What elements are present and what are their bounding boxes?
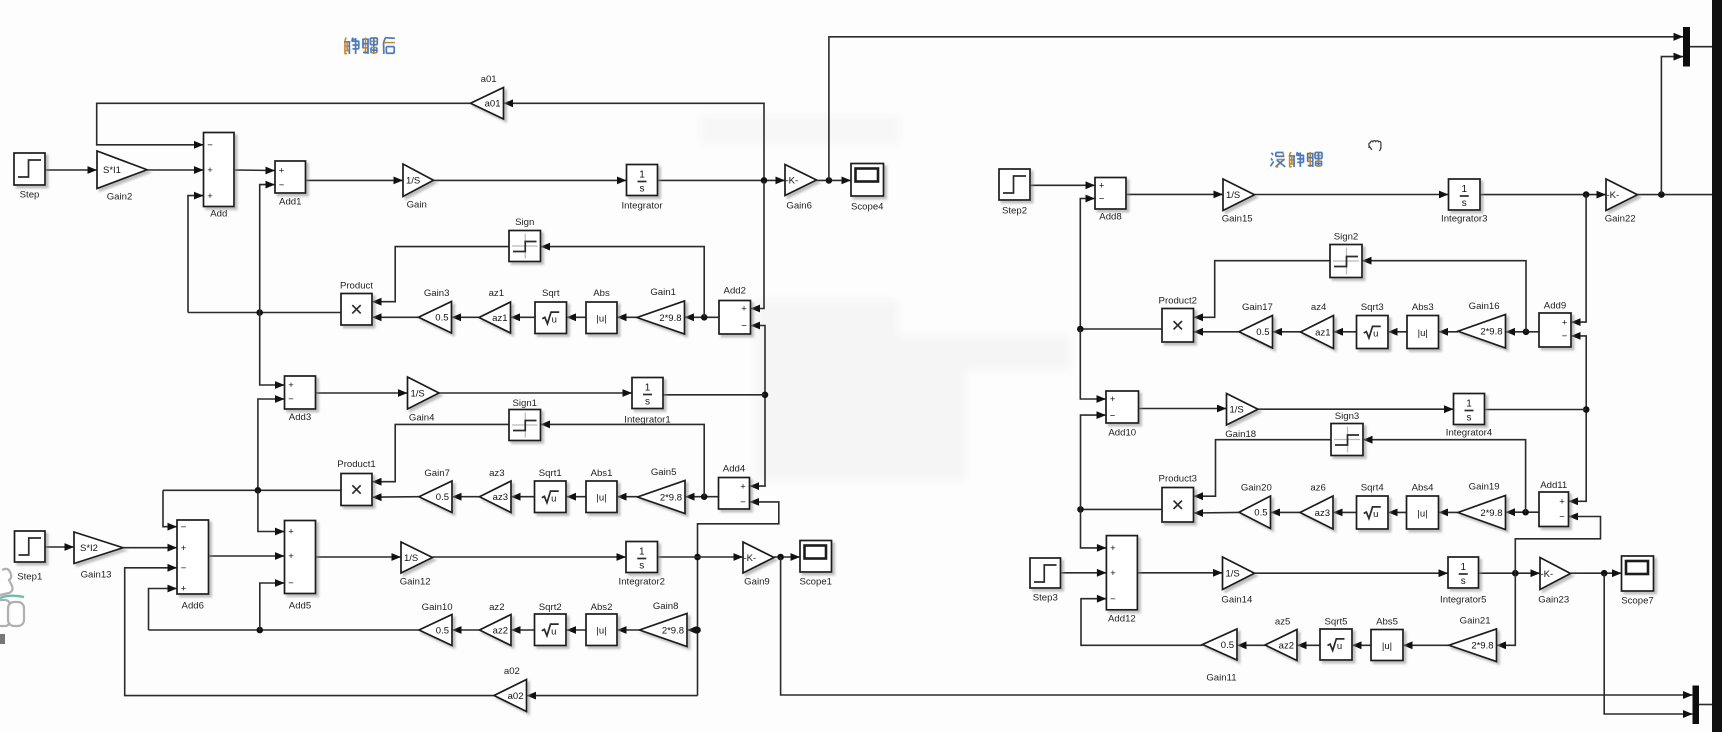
gain block Gain22 value -K- bbox=[1605, 179, 1638, 225]
svg-text:a01: a01 bbox=[485, 99, 501, 110]
svg-text:Gain14: Gain14 bbox=[1221, 595, 1253, 606]
svg-text:+: + bbox=[1110, 568, 1116, 579]
mux block top Mux bbox=[1674, 27, 1691, 67]
sum block Add2 mirrored bbox=[719, 286, 751, 335]
svg-text:Add6: Add6 bbox=[182, 601, 204, 612]
svg-text:Add3: Add3 bbox=[289, 412, 311, 423]
gain block Gain13 value S*I2 bbox=[74, 532, 123, 581]
svg-text:Gain4: Gain4 bbox=[409, 413, 435, 424]
svg-text:2*9.8: 2*9.8 bbox=[1480, 327, 1502, 338]
wire Abs1 to Sqrt1 bbox=[567, 493, 587, 501]
gain block az5 bbox=[1265, 617, 1297, 661]
svg-text:Gain5: Gain5 bbox=[651, 467, 677, 478]
wire Sqrt2 to az2 bbox=[511, 626, 535, 634]
wire Gain23 net down to bottom Mux input 2 bbox=[1604, 573, 1692, 718]
wire Integrator1 output to junction bbox=[663, 394, 765, 396]
wire az1 to Gain3 bbox=[452, 313, 480, 321]
wire Gain21 to Abs5 bbox=[1403, 641, 1449, 649]
wire Add4 output to Gain5 with Sign1 tap junction bbox=[685, 493, 719, 501]
svg-text:−: − bbox=[207, 140, 213, 151]
wire Gain23 to Scope7 with junction bbox=[1571, 569, 1622, 577]
svg-text:Gain6: Gain6 bbox=[786, 201, 812, 212]
svg-text:1: 1 bbox=[1461, 184, 1467, 195]
svg-text:s: s bbox=[639, 561, 644, 572]
wire Integrator3 net down to Add9 plus bbox=[1571, 195, 1586, 326]
svg-text:−: − bbox=[181, 522, 187, 533]
sum block Add3 bbox=[285, 376, 316, 423]
svg-text:az5: az5 bbox=[1275, 617, 1290, 628]
svg-text:u: u bbox=[551, 493, 556, 504]
hand cursor bbox=[1369, 141, 1381, 151]
svg-text:+: + bbox=[1110, 394, 1116, 405]
svg-text:Gain20: Gain20 bbox=[1241, 483, 1272, 494]
svg-text:|u|: |u| bbox=[1382, 641, 1392, 652]
svg-text:+: + bbox=[1110, 543, 1116, 554]
svg-text:−: − bbox=[1110, 594, 1116, 605]
wire az6 to Gain20 bbox=[1271, 509, 1301, 517]
svg-text:Add1: Add1 bbox=[279, 197, 301, 208]
gain block Gain19 value 2*9.8 bbox=[1458, 482, 1506, 530]
svg-text:Abs2: Abs2 bbox=[591, 602, 613, 613]
wire Step2 to Add8 plus bbox=[1030, 181, 1095, 189]
wire Sqrt to az1 bbox=[511, 313, 536, 321]
gain block Gain10 value 0.5 bbox=[419, 602, 453, 646]
svg-text:az3: az3 bbox=[1315, 508, 1330, 519]
wire Abs3 to Sqrt3 bbox=[1388, 328, 1407, 336]
gain block Gain4 value 1/S bbox=[408, 377, 440, 424]
svg-text:Sign3: Sign3 bbox=[1335, 411, 1360, 422]
wire Product2 net down to Add10 plus bbox=[1080, 329, 1106, 403]
svg-text:−: − bbox=[181, 563, 187, 574]
svg-text:Gain: Gain bbox=[407, 200, 427, 211]
svg-text:Sqrt2: Sqrt2 bbox=[539, 602, 562, 613]
wire Gain9 net down to bottom Mux input 1 bbox=[781, 557, 1693, 699]
svg-text:Product: Product bbox=[340, 281, 373, 292]
wire Product1 output net to Add6 minus1 and Add5 plus1 bbox=[163, 487, 341, 535]
wire Add2 output to Gain1 with Sign tap junction bbox=[685, 313, 720, 321]
svg-text:+: + bbox=[288, 551, 294, 562]
svg-text:Integrator5: Integrator5 bbox=[1440, 595, 1486, 606]
wire Sign3 tap up to Sign3 input bbox=[1363, 436, 1526, 512]
sign block Sign bbox=[509, 217, 541, 262]
svg-text:Gain16: Gain16 bbox=[1469, 301, 1500, 312]
wire Add12 to Gain14 bbox=[1137, 569, 1222, 577]
wire az5 to Gain11 bbox=[1237, 641, 1265, 649]
title not-decoupled (Chinese) mei jie ou bbox=[1271, 152, 1323, 167]
svg-text:Scope1: Scope1 bbox=[799, 577, 832, 588]
svg-text:+: + bbox=[1099, 181, 1105, 192]
svg-text:+: + bbox=[740, 481, 746, 492]
wire Sign3 output to Product3 input 1 bbox=[1194, 440, 1332, 500]
wire Gain7 to Product1 input 2 bbox=[372, 493, 419, 501]
svg-text:−: − bbox=[1110, 410, 1116, 421]
wire Gain20 to Product3 input 2 bbox=[1194, 509, 1240, 517]
wire Sqrt5 to az5 bbox=[1297, 641, 1320, 649]
gain block a02 bbox=[494, 666, 527, 712]
svg-text:Gain17: Gain17 bbox=[1242, 302, 1273, 313]
svg-text:Gain9: Gain9 bbox=[744, 577, 770, 588]
svg-text:−: − bbox=[1099, 194, 1105, 205]
abs block Abs3 bbox=[1407, 302, 1439, 349]
wire a01 input from Gain6 net bbox=[504, 99, 765, 180]
svg-text:u: u bbox=[552, 314, 557, 325]
svg-text:1/S: 1/S bbox=[1226, 190, 1240, 201]
wire Gain14 to Integrator5 bbox=[1255, 569, 1449, 577]
wire Add5 to Gain12 bbox=[316, 553, 402, 561]
wire Gain3 to Product input 2 bbox=[372, 313, 419, 321]
gain block Gain6 value -K- bbox=[785, 165, 817, 212]
integrator block Integrator1 bbox=[624, 378, 670, 426]
svg-text:Scope7: Scope7 bbox=[1621, 596, 1654, 607]
abs block Abs1 bbox=[586, 468, 617, 513]
wire Integrator to Gain6 with junction bbox=[658, 177, 786, 185]
svg-text:S*I1: S*I1 bbox=[103, 165, 121, 176]
svg-text:Integrator2: Integrator2 bbox=[619, 577, 665, 588]
gain block Gain2 value S*I1 bbox=[97, 151, 147, 203]
wire Integrator1 net vertical: Add2 minus to Add4 plus bbox=[750, 322, 769, 490]
svg-text:1/S: 1/S bbox=[1230, 405, 1244, 416]
wire az4 to Gain17 bbox=[1273, 328, 1301, 336]
gain block az4 bbox=[1301, 302, 1334, 349]
svg-text:Integrator4: Integrator4 bbox=[1446, 428, 1493, 439]
svg-text:Abs5: Abs5 bbox=[1376, 617, 1398, 628]
wire Add3 to Gain4 bbox=[316, 389, 408, 397]
integrator block Integrator4 bbox=[1446, 394, 1493, 439]
gain block a01 bbox=[471, 74, 504, 119]
svg-text:Gain11: Gain11 bbox=[1206, 673, 1236, 684]
svg-text:Gain13: Gain13 bbox=[81, 570, 112, 581]
wire Gain12 to Integrator2 bbox=[433, 553, 627, 561]
svg-text:+: + bbox=[207, 191, 213, 202]
gain block Gain3 value 0.5 bbox=[419, 288, 452, 333]
gain block Gain5 value 2*9.8 bbox=[638, 467, 686, 514]
wire Gain22 output to right bar with junction bbox=[1638, 191, 1713, 198]
svg-text:Gain2: Gain2 bbox=[107, 192, 133, 203]
svg-text:u: u bbox=[551, 626, 556, 637]
svg-text:0.5: 0.5 bbox=[435, 313, 448, 324]
sqrt block Sqrt1 bbox=[535, 468, 567, 513]
svg-text:-K-: -K- bbox=[744, 553, 757, 564]
wire Abs to Sqrt bbox=[567, 313, 587, 321]
svg-text:Step3: Step3 bbox=[1033, 593, 1058, 604]
wire a02 output to Add6 minus3 bbox=[125, 564, 494, 696]
scope block Scope4 bbox=[851, 164, 884, 213]
abs block Abs2 bbox=[586, 602, 617, 646]
source block Step2 bbox=[999, 169, 1030, 217]
gain block Gain1 value 2*9.8 bbox=[637, 287, 685, 334]
svg-text:Gain8: Gain8 bbox=[653, 601, 679, 612]
svg-text:az1: az1 bbox=[492, 313, 507, 324]
wire Product2 output to junction bbox=[1077, 326, 1162, 333]
svg-text:Abs: Abs bbox=[593, 288, 610, 299]
svg-text:−: − bbox=[288, 578, 294, 589]
svg-text:Add12: Add12 bbox=[1108, 614, 1136, 625]
svg-text:1: 1 bbox=[639, 547, 645, 558]
svg-text:Sign: Sign bbox=[515, 217, 534, 228]
wire Abs2 to Sqrt2 bbox=[567, 626, 587, 634]
wire Gain1 to Abs bbox=[617, 313, 637, 321]
wire Sign2 output to Product2 input 1 bbox=[1194, 261, 1331, 322]
svg-text:a02: a02 bbox=[508, 691, 524, 702]
svg-text:Gain18: Gain18 bbox=[1225, 429, 1256, 440]
gain block az6 bbox=[1300, 483, 1333, 530]
watermark bottom-left bbox=[0, 569, 24, 644]
svg-text:Abs3: Abs3 bbox=[1412, 302, 1434, 313]
svg-text:1: 1 bbox=[645, 383, 651, 394]
wire Add6 to Add5 plus2 bbox=[209, 552, 285, 560]
wire Add8 to Gain15 bbox=[1126, 191, 1223, 199]
svg-text:az3: az3 bbox=[493, 492, 508, 503]
sum block Add6 bbox=[177, 520, 209, 612]
svg-text:1: 1 bbox=[1460, 562, 1466, 573]
svg-text:Gain23: Gain23 bbox=[1538, 595, 1569, 606]
wire Sqrt3 to az4 bbox=[1334, 328, 1357, 336]
svg-text:−: − bbox=[1559, 512, 1565, 523]
wire Gain18 to Integrator4 bbox=[1258, 405, 1454, 413]
wire Sign1 output to Product1 input 1 bbox=[372, 424, 509, 485]
svg-text:2*9.8: 2*9.8 bbox=[1480, 508, 1502, 519]
sum block Add11 mirrored bbox=[1539, 480, 1569, 527]
wire Integrator2 net bottom to a02 input bbox=[527, 692, 698, 700]
wire Integrator4 net: Add9 minus to Add11 plus bbox=[1569, 332, 1590, 505]
wire Gain13 to Add6 plus2 bbox=[123, 544, 177, 552]
wire Gain22 net up to top Mux input 2 bbox=[1661, 53, 1683, 195]
source block Step1 bbox=[15, 531, 46, 583]
integrator block Integrator5 bbox=[1440, 557, 1486, 606]
svg-text:Add11: Add11 bbox=[1540, 480, 1567, 491]
svg-text:1/S: 1/S bbox=[404, 553, 418, 564]
wire Gain19 to Abs4 bbox=[1439, 509, 1459, 517]
svg-text:Add9: Add9 bbox=[1544, 301, 1566, 312]
wire Gain4 to Integrator1 bbox=[439, 389, 632, 397]
wire Step1 to Gain13 bbox=[45, 543, 74, 551]
svg-text:-K-: -K- bbox=[1541, 569, 1554, 580]
wire Gain17 to Product2 input 2 bbox=[1194, 328, 1240, 336]
svg-text:|u|: |u| bbox=[596, 626, 606, 637]
wire junction to Gain8 bbox=[687, 626, 698, 634]
gain block az2 bbox=[480, 602, 512, 646]
wire Abs4 to Sqrt4 bbox=[1388, 509, 1407, 517]
sqrt block Sqrt bbox=[535, 288, 567, 334]
svg-text:Product1: Product1 bbox=[337, 459, 375, 470]
sum block Add5 bbox=[285, 521, 316, 612]
wire Gain5 to Abs1 bbox=[617, 493, 638, 501]
svg-text:|u|: |u| bbox=[596, 493, 606, 504]
svg-text:Sqrt5: Sqrt5 bbox=[1325, 617, 1348, 628]
wire Sign1 tap up to Sign1 input bbox=[541, 421, 705, 497]
wire top Mux output to right bar bbox=[1690, 46, 1712, 48]
svg-text:Product2: Product2 bbox=[1159, 296, 1197, 307]
svg-text:az1: az1 bbox=[489, 288, 504, 299]
wire Add9 output to Gain16 with Sign2 tap junction bbox=[1506, 328, 1540, 336]
gain block Gain value 1/S bbox=[403, 164, 434, 211]
svg-text:Sqrt4: Sqrt4 bbox=[1361, 483, 1385, 494]
svg-text:0.5: 0.5 bbox=[1254, 508, 1267, 519]
wire Step to Gain2 bbox=[45, 166, 97, 174]
gain block Gain16 value 2*9.8 bbox=[1458, 301, 1506, 348]
gain block Gain9 value -K- bbox=[743, 542, 774, 588]
svg-text:s: s bbox=[645, 397, 650, 408]
svg-text:2*9.8: 2*9.8 bbox=[662, 625, 684, 636]
svg-text:Scope4: Scope4 bbox=[851, 202, 884, 213]
wire Gain8 to Abs2 bbox=[617, 626, 640, 634]
integrator block Integrator2 bbox=[619, 542, 665, 588]
wire Product3 net down to Add12 plus1 bbox=[1081, 509, 1107, 551]
svg-text:az2: az2 bbox=[493, 625, 508, 636]
sign block Sign1 bbox=[509, 398, 541, 441]
svg-text:s: s bbox=[1462, 198, 1467, 209]
wire Integrator2 to Gain9 through junction bbox=[658, 553, 744, 561]
svg-text:+: + bbox=[741, 304, 747, 315]
integrator block Integrator bbox=[621, 165, 663, 212]
wire Abs5 to Sqrt5 bbox=[1352, 641, 1371, 649]
svg-text:az2: az2 bbox=[1279, 640, 1294, 651]
source block Step bbox=[14, 153, 45, 201]
svg-text:Step1: Step1 bbox=[17, 572, 42, 583]
svg-text:-K-: -K- bbox=[1607, 190, 1620, 201]
svg-text:Sign2: Sign2 bbox=[1334, 232, 1359, 243]
wire Gain6 net down to Add2 plus bbox=[751, 180, 765, 312]
wire Gain10 output net to Add6 plus4 and Add5 minus bbox=[149, 579, 420, 633]
gain block az1 bbox=[479, 288, 511, 333]
svg-text:−: − bbox=[279, 180, 285, 191]
background band A bbox=[700, 116, 1070, 480]
svg-text:|u|: |u| bbox=[1417, 508, 1427, 519]
svg-text:Integrator: Integrator bbox=[621, 201, 663, 212]
sum block Add8 bbox=[1095, 178, 1126, 223]
svg-text:Gain12: Gain12 bbox=[400, 577, 431, 588]
sum block Add4 mirrored bbox=[719, 464, 750, 510]
svg-text:1: 1 bbox=[1466, 399, 1472, 410]
svg-text:Abs1: Abs1 bbox=[591, 468, 613, 479]
wire Product3 output to junction bbox=[1077, 506, 1162, 513]
gain block Gain12 value 1/S bbox=[400, 542, 433, 588]
wire Add to Add1 plus bbox=[234, 167, 275, 175]
svg-text:Gain7: Gain7 bbox=[424, 468, 450, 479]
wire Step3 to Add12 plus2 bbox=[1061, 569, 1107, 577]
scope block Scope7 bbox=[1621, 556, 1654, 607]
gain block Gain21 value 2*9.8 bbox=[1449, 616, 1497, 662]
product block Product1 bbox=[337, 459, 375, 506]
wire Product3 net up to Add10 minus bbox=[1081, 411, 1107, 509]
product block Product2 bbox=[1159, 296, 1197, 343]
svg-text:-K-: -K- bbox=[786, 175, 799, 186]
svg-text:0.5: 0.5 bbox=[1221, 640, 1234, 651]
mux block bottom Mux bbox=[1683, 686, 1699, 725]
svg-text:Product3: Product3 bbox=[1159, 474, 1197, 485]
sqrt block Sqrt2 bbox=[535, 602, 567, 646]
gain block Gain11 value 0.5 label below bbox=[1203, 629, 1238, 684]
svg-text:2*9.8: 2*9.8 bbox=[659, 313, 681, 324]
gain block Gain23 value -K- bbox=[1538, 558, 1570, 606]
svg-text:1/S: 1/S bbox=[406, 176, 420, 187]
svg-text:u: u bbox=[1373, 509, 1378, 520]
wire Integrator5 net down to Gain21 bbox=[1497, 573, 1516, 649]
abs block Abs4 bbox=[1407, 483, 1439, 530]
svg-text:u: u bbox=[1337, 641, 1342, 652]
svg-text:1/S: 1/S bbox=[1226, 569, 1240, 580]
svg-text:−: − bbox=[740, 497, 746, 508]
sum block Add12 bbox=[1106, 536, 1137, 625]
wire Sign2 tap up to Sign2 input bbox=[1362, 257, 1526, 332]
svg-text:s: s bbox=[1461, 576, 1466, 587]
gain block Gain15 value 1/S bbox=[1222, 179, 1255, 225]
wire Sign output to Product input 1 bbox=[372, 247, 509, 306]
wire Gain6 to Scope4 with junction bbox=[817, 177, 852, 185]
sqrt block Sqrt4 bbox=[1357, 483, 1389, 530]
wire Integrator4 output to junction bbox=[1485, 409, 1587, 411]
svg-text:0.5: 0.5 bbox=[1256, 327, 1269, 338]
wire Add1 to Gain bbox=[306, 177, 404, 185]
svg-text:Sign1: Sign1 bbox=[512, 398, 537, 409]
svg-text:Add4: Add4 bbox=[723, 464, 746, 475]
svg-text:a02: a02 bbox=[504, 666, 520, 677]
svg-text:Add2: Add2 bbox=[724, 286, 746, 297]
wire Add3 minus from Product1 net bbox=[258, 395, 285, 490]
integrator block Integrator3 bbox=[1441, 179, 1487, 225]
svg-text:Gain10: Gain10 bbox=[422, 602, 453, 613]
svg-text:az6: az6 bbox=[1310, 483, 1325, 494]
svg-text:Add: Add bbox=[210, 209, 227, 220]
wire az2 to Gain10 bbox=[452, 626, 480, 634]
wire Product output net to Add plus3 / Add1 minus / Add3 plus bbox=[188, 181, 341, 389]
svg-text:Sqrt: Sqrt bbox=[542, 288, 560, 299]
svg-text:1/S: 1/S bbox=[411, 388, 425, 399]
gain block Gain20 value 0.5 bbox=[1239, 483, 1272, 529]
svg-text:|u|: |u| bbox=[596, 314, 606, 325]
wire Integrator5 to Gain23 with junction bbox=[1479, 569, 1541, 577]
svg-text:2*9.8: 2*9.8 bbox=[1471, 641, 1493, 652]
wire az3 to Gain7 bbox=[452, 493, 480, 501]
abs block Abs5 bbox=[1371, 617, 1403, 661]
wire Add10 to Gain18 bbox=[1139, 405, 1227, 413]
svg-text:Add5: Add5 bbox=[289, 601, 311, 612]
svg-text:Abs4: Abs4 bbox=[1412, 483, 1435, 494]
svg-text:+: + bbox=[1559, 497, 1565, 508]
svg-text:s: s bbox=[640, 184, 645, 195]
svg-text:0.5: 0.5 bbox=[436, 625, 449, 636]
wire Gain to Integrator bbox=[434, 177, 627, 185]
source block Step3 bbox=[1030, 558, 1061, 604]
svg-text:Integrator3: Integrator3 bbox=[1441, 214, 1487, 225]
wire Gain11 output to Add12 minus bbox=[1081, 595, 1203, 646]
svg-text:Step2: Step2 bbox=[1002, 206, 1027, 217]
svg-text:+: + bbox=[279, 166, 285, 177]
gain block Gain17 value 0.5 bbox=[1239, 302, 1273, 348]
svg-text:a01: a01 bbox=[481, 74, 497, 85]
wire Gain2 to Add plus2 bbox=[147, 166, 204, 174]
wire Gain9 to Scope1 with junction bbox=[774, 553, 800, 561]
product block Product bbox=[340, 281, 373, 326]
sum block Add1 bbox=[275, 161, 306, 208]
svg-text:−: − bbox=[1562, 331, 1568, 342]
sum block Add bbox=[204, 133, 235, 220]
gain block Gain8 value 2*9.8 bbox=[640, 601, 688, 647]
scope block Scope1 bbox=[799, 541, 832, 588]
wire Integrator3 to Gain22 with junction bbox=[1480, 191, 1606, 199]
svg-text:S*I2: S*I2 bbox=[80, 543, 98, 554]
svg-text:−: − bbox=[741, 321, 747, 332]
wire Integrator5 net up to Add11 minus bbox=[1515, 513, 1600, 574]
svg-text:az4: az4 bbox=[1311, 302, 1327, 313]
gain block Gain7 value 0.5 bbox=[419, 468, 452, 513]
title decoupled (Chinese) jie ou hou bbox=[344, 38, 395, 54]
svg-text:Step: Step bbox=[20, 190, 40, 201]
svg-text:az1: az1 bbox=[1315, 327, 1330, 338]
svg-text:az2: az2 bbox=[489, 602, 504, 613]
wire a01 feedback: a01 output to Add minus input bbox=[97, 103, 471, 148]
wire Sign tap up to Sign input bbox=[541, 243, 705, 318]
